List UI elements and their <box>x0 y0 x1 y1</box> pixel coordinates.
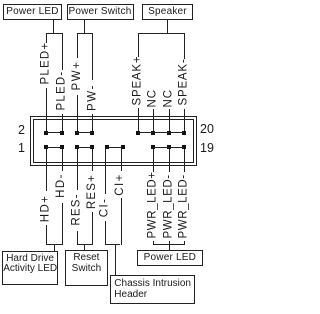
wire bracket Power LED group <box>46 33 63 34</box>
pin 18 (NC) <box>167 131 171 135</box>
label PLED+ <box>40 44 53 84</box>
wire pin3 down to HD- label <box>62 149 63 171</box>
wire stem to Chassis Intrusion box <box>115 244 116 276</box>
wire drop PW- <box>92 33 93 80</box>
pin 9 (CI-) <box>105 145 109 149</box>
pin 19 (PWR_LED-) <box>182 145 186 149</box>
wire stem from Power LED box <box>53 20 54 34</box>
wire SPEAK+ to pin14 <box>138 108 139 131</box>
box Reset Switch <box>65 250 108 286</box>
wire pin9 down to CI- label <box>105 149 106 194</box>
wire pin5 down to RES- label <box>77 149 78 190</box>
jumper bar pins 1-3 <box>46 147 62 148</box>
wire CI- to bracket <box>105 221 106 244</box>
pin 4 (PLED-) <box>60 131 64 135</box>
wire SPEAK- to pin20 <box>184 109 185 131</box>
wire PW+ to pin6 <box>77 95 78 131</box>
label SPEAK- <box>178 61 191 105</box>
label HD- <box>55 172 68 199</box>
wire pin19 down to PWR_LED- label <box>184 149 185 172</box>
wire pin17 down to PWR_LED- label <box>169 149 170 172</box>
wire PWR_LED- pin19 to bracket <box>184 241 185 245</box>
label NC pin16 <box>147 90 160 108</box>
wire PWR_LED- to bracket <box>169 241 170 245</box>
wire stem to Reset Switch box <box>84 244 85 251</box>
pin 17 (PWR_LED-) <box>167 145 171 149</box>
pin 11 (CI+) <box>121 145 125 149</box>
wire RES+ to bracket <box>92 212 93 245</box>
pin number 2 <box>17 124 25 136</box>
pin 16 (NC) <box>151 131 155 135</box>
pin 1 (HD+) <box>44 145 48 149</box>
wire PLED- to pin4 <box>62 114 63 131</box>
pin 6 (PW+) <box>75 131 79 135</box>
wire bracket PWR_LED group <box>153 244 184 245</box>
wire CI+ to bracket <box>121 198 122 245</box>
label RES+ <box>86 173 99 210</box>
label PW+ <box>71 60 84 91</box>
label CI+ <box>114 172 127 197</box>
jumper bar pins 5-7 <box>77 147 92 148</box>
label NC pin18 <box>162 90 175 108</box>
pin 2 (PLED+) <box>44 131 48 135</box>
pin number 19 <box>200 142 214 154</box>
jumper bar pins 9-11 <box>107 147 122 148</box>
wire pin1 down to HD+ label <box>46 149 47 191</box>
pin 7 (RES+) <box>90 145 94 149</box>
box Power LED (bottom) <box>137 250 204 266</box>
label RES- <box>71 191 84 227</box>
wire bracket RES group <box>77 244 92 245</box>
wire RES- to bracket <box>77 231 78 245</box>
wire HD+ to bracket <box>46 225 47 244</box>
wire bracket CI group <box>105 244 120 245</box>
wire PLED+ to pin2 <box>46 88 47 131</box>
wire pin11 down to CI+ label <box>121 149 122 171</box>
pin 8 (PW-) <box>90 131 94 135</box>
pin 20 (SPEAK-) <box>182 131 186 135</box>
wire drop PLED- <box>62 33 63 71</box>
label PWR_LED+ <box>147 175 160 239</box>
label CI- <box>99 196 112 220</box>
label HD+ <box>40 195 53 223</box>
jumper bar pins 14-20 <box>138 132 184 133</box>
pin 15 (PWR_LED+) <box>151 145 155 149</box>
pin 14 (SPEAK+) <box>136 131 140 135</box>
box Speaker (top) <box>142 4 193 20</box>
jumper bar pins 15-19 <box>153 147 184 148</box>
jumper bar pins 6-8 <box>77 132 92 133</box>
wire stem to Power LED bottom box <box>169 244 170 250</box>
wire drop SPEAK+ <box>138 33 139 58</box>
label PWR_LED- pin19 <box>178 175 191 239</box>
wire bracket Speaker group <box>138 33 185 34</box>
wire bracket Power Switch group <box>77 33 93 34</box>
wire pin15 down to PWR_LED+ label <box>153 149 154 172</box>
wire NC to pin18 <box>169 109 170 131</box>
connector outer rectangle <box>30 116 197 166</box>
wire stem from Speaker box <box>167 20 168 34</box>
label PWR_LED- pin17 <box>162 175 175 239</box>
wire stem from Power Switch box <box>84 20 85 34</box>
label PW- <box>86 83 99 113</box>
wire PW- to pin8 <box>92 114 93 131</box>
pin number 1 <box>17 142 25 154</box>
box Chassis Intrusion Header <box>110 275 194 304</box>
label PLED- <box>55 71 68 111</box>
wire drop PW+ <box>77 33 78 58</box>
wire HD- to bracket <box>62 203 63 245</box>
jumper bar pins 2-4 <box>46 132 62 133</box>
wire bracket HD group <box>46 244 63 245</box>
pin 3 (HD-) <box>60 145 64 149</box>
box Power LED (top) <box>3 4 62 20</box>
label SPEAK+ <box>132 59 145 105</box>
pin 5 (RES-) <box>75 145 79 149</box>
box Hard Drive Activity LED <box>2 251 58 286</box>
wire drop PLED+ <box>46 33 47 43</box>
box Power Switch (top) <box>67 4 134 20</box>
connector inner rectangle <box>33 119 194 163</box>
pin number 20 <box>200 123 214 135</box>
wire NC to pin16 <box>153 109 154 131</box>
wire pin7 down to RES+ label <box>92 149 93 171</box>
wire stem to Hard Drive box <box>54 244 55 251</box>
wire drop SPEAK- <box>184 33 185 60</box>
wire PWR_LED+ to bracket <box>153 241 154 245</box>
